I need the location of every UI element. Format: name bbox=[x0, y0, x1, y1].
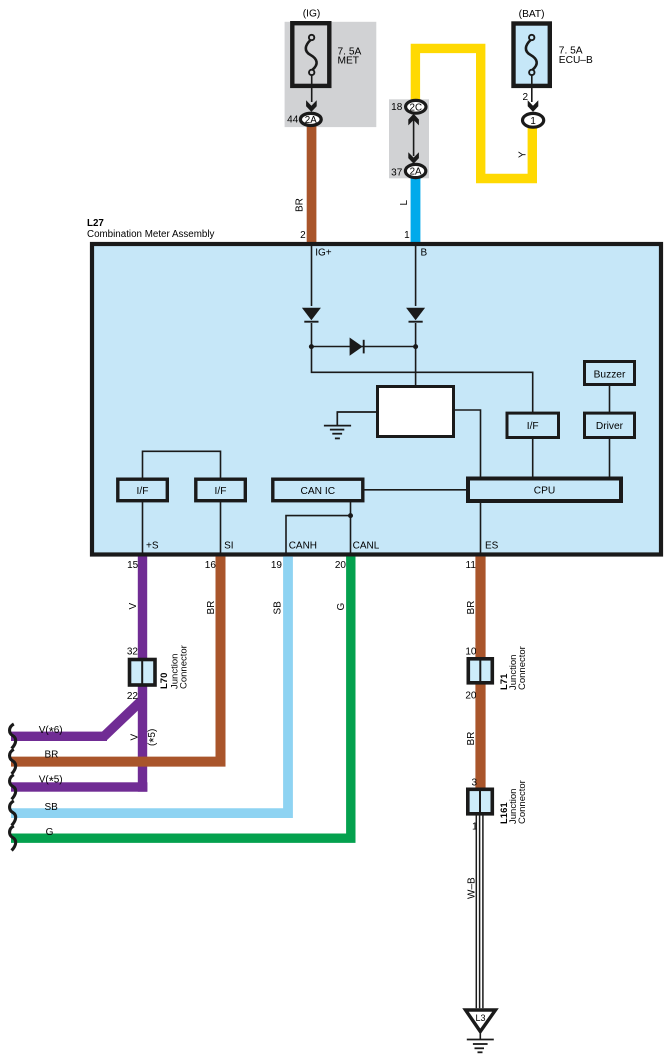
wire Y (yellow) from BAT oval 1 to connector 2C bbox=[415, 48, 532, 178]
wire V(*5) horizontal bbox=[11, 782, 147, 791]
svg-text:L70: L70 bbox=[159, 673, 170, 689]
wire D1 to node bbox=[311, 323, 313, 347]
arrow into oval 2A bbox=[306, 100, 317, 112]
svg-text:L27: L27 bbox=[87, 218, 104, 229]
wire Buzzer to Driver bbox=[609, 386, 611, 412]
connector oval 2A pin 37 bbox=[405, 164, 425, 177]
svg-text:44: 44 bbox=[287, 115, 299, 126]
svg-text:Connector: Connector bbox=[517, 780, 528, 824]
svg-text:19: 19 bbox=[271, 560, 283, 571]
svg-text:32: 32 bbox=[127, 647, 139, 658]
svg-text:SB: SB bbox=[45, 802, 59, 813]
connector oval 1 bbox=[523, 113, 544, 127]
wire CAN IC to CPU bbox=[365, 489, 467, 491]
svg-text:BR: BR bbox=[294, 198, 305, 212]
node B junction dot bbox=[413, 344, 418, 349]
wire CANH branch to pin 19 bbox=[286, 516, 351, 554]
svg-text:L3: L3 bbox=[475, 1013, 485, 1023]
wire B to diode D2 bbox=[415, 246, 417, 306]
svg-text:G: G bbox=[46, 827, 54, 838]
svg-text:37: 37 bbox=[391, 167, 403, 178]
svg-text:I/F: I/F bbox=[527, 421, 539, 432]
diode D2 bbox=[406, 308, 425, 321]
svg-text:11: 11 bbox=[466, 560, 477, 571]
wire regulator to CPU bbox=[454, 410, 481, 477]
svg-text:ES: ES bbox=[485, 540, 499, 551]
svg-text:2C: 2C bbox=[410, 102, 423, 113]
svg-text:BR: BR bbox=[206, 601, 217, 615]
wire IG+ to diode D1 bbox=[311, 246, 313, 306]
wire BR (brown) pin 11 down through L71 and L161 bbox=[475, 557, 485, 815]
svg-text:IG+: IG+ bbox=[315, 248, 332, 259]
ground symbol bbox=[467, 1032, 494, 1052]
wire SB (light blue) pin 19 down and left bbox=[11, 557, 288, 814]
svg-text:I/F: I/F bbox=[215, 486, 227, 497]
svg-text:(BAT): (BAT) bbox=[519, 9, 545, 20]
harness break squiggle G bbox=[10, 826, 16, 851]
svg-text:Connector: Connector bbox=[179, 645, 190, 689]
svg-text:Y: Y bbox=[518, 151, 529, 158]
wire regulator to ground bbox=[337, 411, 378, 413]
svg-text:V: V bbox=[128, 603, 139, 610]
wire L (light blue) from oval 2A/37 to pin 1 B bbox=[411, 176, 421, 243]
I/F box (right) bbox=[507, 413, 559, 437]
svg-text:CANH: CANH bbox=[289, 540, 317, 551]
wire V(*6) horizontal bbox=[11, 732, 107, 741]
wire BR (brown) from oval 2A/44 to pin 2 IG+ bbox=[307, 124, 317, 243]
svg-text:(IG): (IG) bbox=[303, 9, 321, 20]
svg-text:Combination Meter Assembly: Combination Meter Assembly bbox=[87, 229, 215, 240]
svg-text:CANL: CANL bbox=[353, 540, 380, 551]
harness break squiggle SB bbox=[10, 801, 16, 826]
svg-text:L: L bbox=[399, 200, 410, 206]
fuse (IG) 7.5A MET bbox=[292, 23, 329, 102]
regulator box (unlabeled) bbox=[378, 387, 454, 437]
svg-text:CPU: CPU bbox=[534, 486, 556, 497]
arrow up toward 2C bbox=[408, 114, 419, 126]
svg-text:MET: MET bbox=[338, 55, 360, 66]
node CANL junction dot bbox=[348, 513, 353, 518]
wire CANL from CAN IC to pin 20 bbox=[350, 501, 352, 554]
svg-text:22: 22 bbox=[127, 691, 139, 702]
connector ovals 18/2C and 37/2A bbox=[406, 100, 426, 113]
gray background block of IG fuse bbox=[285, 22, 377, 127]
svg-text:G: G bbox=[336, 603, 347, 611]
wire D2 to node bbox=[415, 323, 417, 347]
ground triangle L3 bbox=[466, 1010, 496, 1032]
wire between arrows bbox=[413, 120, 415, 156]
svg-text:I/F: I/F bbox=[137, 486, 149, 497]
wire Driver to CPU bbox=[609, 438, 611, 477]
svg-text:B: B bbox=[421, 248, 428, 259]
svg-text:BR: BR bbox=[45, 749, 59, 760]
junction connector L161 bbox=[468, 789, 493, 814]
wire node A down/right to I/F U4 bbox=[312, 347, 533, 413]
junction connector L71 bbox=[468, 659, 492, 683]
wire V diagonal branch to V(*6) bbox=[104, 700, 143, 737]
svg-text:BR: BR bbox=[466, 732, 477, 746]
Driver box bbox=[585, 413, 635, 437]
wire BR (brown) pin 16 down and left bbox=[11, 557, 221, 762]
svg-text:10: 10 bbox=[465, 646, 477, 657]
CAN IC box bbox=[273, 479, 363, 501]
wire node B to regulator box bbox=[415, 347, 417, 387]
svg-text:CAN IC: CAN IC bbox=[301, 486, 336, 497]
svg-text:16: 16 bbox=[205, 560, 217, 571]
svg-text:SB: SB bbox=[273, 601, 284, 615]
diode D3 bbox=[350, 338, 363, 356]
wire node A to node B bbox=[312, 346, 416, 348]
arrow down toward 2A bbox=[408, 152, 419, 164]
Buzzer box bbox=[585, 362, 635, 385]
connector oval 2A pin 44 bbox=[300, 113, 321, 125]
svg-text:Driver: Driver bbox=[596, 421, 624, 432]
svg-text:1: 1 bbox=[404, 230, 410, 241]
ground (internal) bbox=[324, 412, 351, 438]
svg-text:3: 3 bbox=[471, 777, 477, 788]
I/F box (left 2) bbox=[196, 479, 246, 501]
svg-text:(*5): (*5) bbox=[146, 729, 161, 746]
harness break squiggle V(*6) bbox=[10, 724, 16, 749]
wire W-B (white with stripe) from L161 to ground L3 bbox=[476, 816, 483, 1009]
svg-text:2: 2 bbox=[522, 92, 528, 103]
gray background block of 2C/2A connector bbox=[389, 99, 429, 178]
L27 Combination Meter Assembly box bbox=[92, 244, 661, 555]
wire I/F to CPU bbox=[532, 438, 534, 477]
wire I/F1 to pin +S bbox=[142, 501, 144, 554]
svg-text:ECU–B: ECU–B bbox=[559, 55, 593, 66]
wire I/F2 to pin SI bbox=[220, 501, 222, 554]
CPU box bbox=[468, 479, 621, 502]
svg-text:SI: SI bbox=[224, 540, 233, 551]
svg-text:+S: +S bbox=[146, 540, 159, 551]
svg-text:W–B: W–B bbox=[467, 877, 478, 899]
svg-text:1: 1 bbox=[530, 116, 535, 127]
svg-text:Connector: Connector bbox=[517, 646, 528, 690]
fuse (BAT) 7.5A ECU-B bbox=[514, 24, 550, 103]
svg-text:Buzzer: Buzzer bbox=[594, 370, 626, 381]
wire CPU to pin ES bbox=[480, 501, 482, 554]
svg-text:V: V bbox=[130, 734, 141, 741]
wire G (green) pin 20 down and left bbox=[11, 557, 351, 839]
svg-text:2: 2 bbox=[300, 230, 306, 241]
wire V (purple) pin 15 down through L70 bbox=[138, 557, 147, 792]
svg-text:20: 20 bbox=[335, 560, 347, 571]
junction connector L70 bbox=[130, 660, 156, 686]
svg-text:2A: 2A bbox=[410, 167, 422, 178]
arrow into oval 1 bbox=[528, 100, 539, 112]
diode D1 bbox=[302, 308, 321, 321]
svg-text:20: 20 bbox=[465, 690, 477, 701]
svg-text:18: 18 bbox=[391, 102, 403, 113]
harness break squiggle V(*5) bbox=[10, 775, 16, 800]
svg-text:BR: BR bbox=[466, 601, 477, 615]
svg-text:15: 15 bbox=[127, 560, 139, 571]
harness break squiggle BR bbox=[10, 749, 16, 774]
svg-text:2A: 2A bbox=[305, 115, 317, 126]
wire bridge between I/F tops bbox=[143, 451, 221, 477]
I/F box (left 1) bbox=[118, 479, 168, 501]
node A junction dot bbox=[309, 344, 314, 349]
